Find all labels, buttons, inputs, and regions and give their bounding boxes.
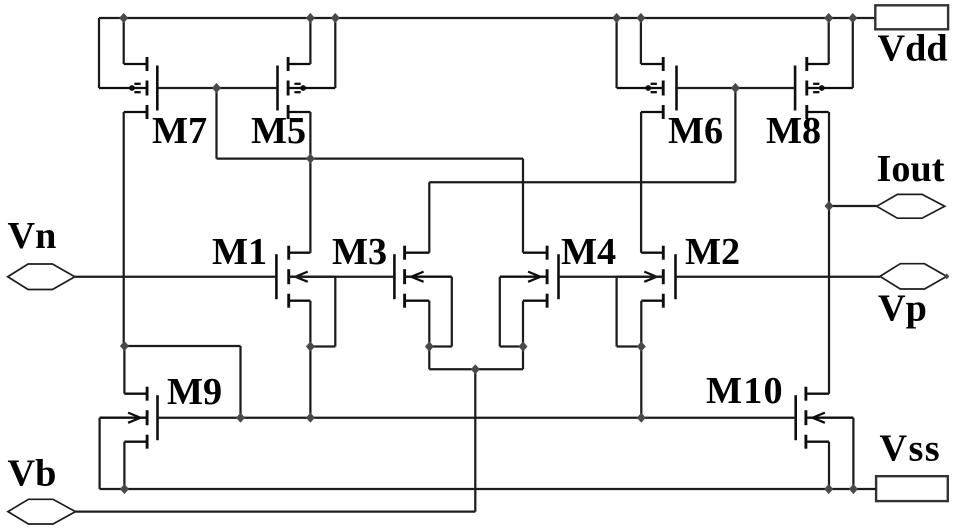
wire tail bar left: [429, 368, 475, 370]
node tail center: [471, 364, 480, 374]
wire Vb tail riser: [474, 369, 476, 511]
wire M5 bulk riser: [334, 18, 336, 88]
transistor M9 (NMOS): [100, 387, 158, 449]
wire M4 bulk elbow: [500, 345, 523, 347]
wire line A (M5 gates / M1 drain / M4 drain): [217, 157, 524, 159]
wire Vdd rail: [99, 17, 875, 19]
transistor M7 (PMOS): [99, 57, 157, 119]
wire M4 gate to M2 bulk: [559, 276, 664, 278]
wire mirror gate wire M9 to M10: [158, 417, 796, 419]
node line A / M1 drain: [306, 154, 315, 164]
node M1 source on mirror wire: [306, 413, 315, 423]
node Iout tap: [825, 201, 834, 211]
transistor M1 (NMOS): [276, 246, 335, 308]
svg-text:Vss: Vss: [880, 428, 942, 470]
wire M5 source riser to line A: [309, 112, 311, 159]
node right gate wire tap: [731, 83, 740, 93]
svg-text:M5: M5: [251, 110, 306, 152]
svg-text:Iout: Iout: [877, 148, 945, 190]
wire Iout stub: [829, 205, 877, 207]
wire M9 source riser to Vss rail: [123, 442, 125, 489]
wire M9 diode drop to gate wire: [239, 346, 241, 418]
svg-text:Vb: Vb: [8, 452, 57, 494]
wire gate-wire riser from line B: [734, 88, 736, 182]
wire M2 gate lead to Vp: [676, 276, 881, 278]
wire M7 drain riser to Vdd rail: [123, 18, 125, 64]
node M9 drain tie: [120, 341, 129, 351]
transistor M3 (NMOS): [394, 246, 451, 308]
svg-text:M7: M7: [152, 110, 207, 152]
wire M2 bulk drop: [615, 277, 617, 347]
transistor M4 (NMOS): [500, 246, 559, 308]
wire M8 drain riser: [828, 18, 830, 64]
wire M2 source riser down to mirror wire: [640, 301, 642, 418]
wire line B (M3 drain to M6/M8 gates): [429, 181, 735, 183]
svg-text:M2: M2: [685, 231, 740, 273]
svg-text:M6: M6: [668, 110, 723, 152]
wire tail bar right: [475, 368, 523, 370]
terminal box Vdd: [875, 5, 948, 29]
node Vdd-M7 drain: [119, 13, 128, 23]
wire Vn lead to M1 gate: [75, 276, 277, 278]
node M4 source-bulk: [519, 341, 528, 351]
wire M6 source / M2 drain riser: [640, 112, 642, 253]
svg-text:M1: M1: [212, 231, 267, 273]
wire M9 bulk drop: [98, 418, 100, 489]
wire M3 bulk elbow: [429, 345, 452, 347]
node M9 source on Vss rail: [120, 484, 129, 494]
wire M1 source riser down to mirror wire: [309, 301, 311, 418]
transistor M5 (PMOS): [278, 57, 336, 119]
wire M1 drain riser to line A: [309, 159, 311, 253]
node Vdd-M5 drain: [306, 13, 315, 23]
svg-text:M4: M4: [561, 231, 616, 273]
node Vdd-M8 bulk: [848, 13, 857, 23]
terminal box Vss: [876, 476, 948, 501]
svg-text:Vn: Vn: [8, 215, 57, 257]
wire M10 source riser to Vss rail: [828, 442, 830, 489]
wire M6-M8 gate wire: [677, 87, 796, 89]
wire M4 drain riser: [522, 159, 524, 253]
svg-text:M8: M8: [766, 110, 821, 152]
svg-text:M3: M3: [332, 231, 387, 273]
svg-text:Vp: Vp: [878, 287, 927, 329]
terminal pin Vb: [8, 499, 76, 524]
wire M1 bulk drop: [334, 277, 336, 347]
wire M4 bulk drop: [499, 277, 501, 347]
node M9 gate diode: [236, 413, 245, 423]
node M2 source on mirror wire: [637, 413, 646, 423]
wire gate-wire drop to line A: [215, 88, 217, 159]
node M2 source-bulk: [637, 341, 646, 351]
svg-text:M9: M9: [167, 371, 222, 413]
node Vdd-M5 bulk: [331, 13, 340, 23]
terminal pin Vn: [8, 264, 75, 290]
terminal pin Iout: [877, 194, 945, 218]
wire M7-M5 gate wire: [157, 87, 277, 89]
transistor M6 (PMOS): [617, 57, 677, 119]
wire Vb lead: [76, 510, 476, 512]
wire M10 bulk drop: [852, 418, 854, 489]
terminal pin Vp: [880, 264, 947, 289]
node M3 source-bulk: [425, 341, 434, 351]
wire M6 drain riser: [640, 18, 642, 64]
wire M4 source riser to tail bar: [522, 301, 524, 370]
wire M1 bulk to M3 gate: [289, 276, 395, 278]
node M10 bulk on Vss rail: [849, 484, 858, 494]
transistor M10 (NMOS): [796, 387, 854, 449]
node left gate wire tap: [212, 83, 221, 93]
wire M9 drain tie wire: [124, 345, 240, 347]
wire M9 drain riser: [123, 346, 125, 394]
wire M2 bulk elbow: [617, 345, 642, 347]
wire M1 bulk elbow: [310, 345, 335, 347]
wire M3 bulk drop: [451, 277, 453, 347]
wire M7 bulk riser to Vdd rail: [98, 18, 100, 88]
node M10 source on Vss rail: [824, 484, 833, 494]
wire M3 drain riser: [428, 182, 430, 253]
node M1 source-bulk: [306, 341, 315, 351]
wire M5 drain riser: [309, 18, 311, 64]
node Vdd-M6 bulk: [612, 13, 621, 23]
svg-text:Vdd: Vdd: [878, 27, 948, 69]
node Vdd-M6 drain: [636, 13, 645, 23]
node Vp pin dot: [944, 273, 949, 279]
node Vdd-M8 drain: [824, 13, 833, 23]
transistor M8 (PMOS): [795, 57, 853, 119]
wire M6 bulk riser: [615, 18, 617, 88]
svg-text:M10: M10: [706, 370, 784, 412]
transistor M2 (NMOS): [617, 246, 676, 308]
wire M8 source / M10 drain riser (Iout column): [828, 112, 830, 394]
wire Vss rail: [100, 488, 877, 490]
wire M7 source riser down to M9 drain node: [123, 112, 125, 346]
wire M3 source riser to tail bar: [428, 301, 430, 370]
wire M8 bulk riser: [852, 18, 854, 88]
